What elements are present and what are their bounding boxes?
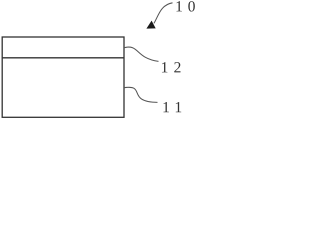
leader curve to label 12	[124, 47, 159, 61]
label 12: digit 1	[162, 62, 167, 72]
label 10: digit 0	[188, 1, 195, 11]
label 10: digit 1	[176, 1, 181, 11]
label 11: first digit 1	[163, 102, 168, 112]
label 11: second digit 1	[176, 102, 181, 112]
top layer divider line (boundary of layer 12)	[2, 57, 124, 59]
arrow curve for label 10	[154, 3, 173, 24]
label 12: digit 2	[174, 62, 180, 72]
leader curve to label 11	[124, 87, 158, 102]
layer stack outline (body 11)	[2, 37, 124, 117]
arrowhead of 10	[146, 21, 155, 29]
